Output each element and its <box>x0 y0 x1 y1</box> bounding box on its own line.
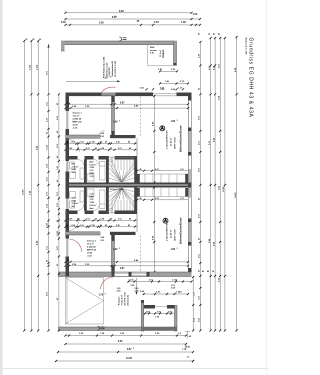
svg-text:2.375: 2.375 <box>36 64 38 70</box>
svg-text:BRH 0.90: BRH 0.90 <box>73 121 83 123</box>
svg-text:45: 45 <box>66 141 68 144</box>
dashed beam line B <box>140 236 142 272</box>
bottom dim row 3 <box>57 348 194 353</box>
svg-text:10.06: 10.06 <box>223 186 225 192</box>
svg-text:±0.00: ±0.00 <box>73 124 79 126</box>
svg-text:2.26/2.38: 2.26/2.38 <box>109 67 111 77</box>
svg-text:Zimmer 1: Zimmer 1 <box>73 111 83 114</box>
svg-text:5: 5 <box>119 248 120 250</box>
svg-text:45: 45 <box>128 141 130 144</box>
stair B treads <box>111 200 113 214</box>
page left edge shadow <box>0 0 3 375</box>
svg-text:BRH: BRH <box>90 173 95 175</box>
north window A <box>153 93 177 97</box>
svg-text:2.26/: 2.26/ <box>90 167 95 169</box>
east kitchen window B <box>189 188 191 198</box>
terrace door opening <box>115 273 129 276</box>
svg-text:2 St.: 2 St. <box>150 52 155 55</box>
svg-text:30: 30 <box>212 271 214 273</box>
north arrow B <box>163 218 168 223</box>
svg-text:5: 5 <box>133 348 134 350</box>
svg-text:1.01: 1.01 <box>180 169 184 171</box>
shed interior dims <box>144 313 175 315</box>
svg-text:30: 30 <box>199 33 201 35</box>
svg-text:21.05 m²: 21.05 m² <box>170 229 173 238</box>
WC divider B <box>84 188 87 211</box>
terrace <box>64 278 66 325</box>
svg-text:0.98: 0.98 <box>101 219 105 221</box>
svg-text:Maßstab 1:100: Maßstab 1:100 <box>245 38 248 56</box>
svg-text:2.26/2.38 BRH 0.90: 2.26/2.38 BRH 0.90 <box>167 130 169 149</box>
bedroom A west window <box>66 111 70 129</box>
svg-text:0.86: 0.86 <box>101 133 105 135</box>
dim row above shed <box>144 293 188 295</box>
svg-text:45: 45 <box>66 224 68 227</box>
svg-text:5.30: 5.30 <box>99 22 104 25</box>
bath dim row 2 B <box>66 226 138 228</box>
svg-text:1.96: 1.96 <box>113 249 118 251</box>
svg-text:Carport: Carport <box>162 49 165 58</box>
interior wall A vertical <box>112 96 115 137</box>
svg-text:UK Sturz 2.26: UK Sturz 2.26 <box>105 62 108 77</box>
svg-text:45: 45 <box>140 168 142 171</box>
svg-text:16 Stg 17.9/26: 16 Stg 17.9/26 <box>110 188 124 191</box>
svg-text:5: 5 <box>105 293 106 295</box>
svg-text:1.135: 1.135 <box>90 225 95 227</box>
entry door swing red <box>102 87 116 92</box>
shed walls <box>141 300 144 303</box>
flue symbol bottom <box>98 326 100 330</box>
svg-text:45: 45 <box>95 218 97 221</box>
svg-text:1.135: 1.135 <box>172 279 178 281</box>
svg-text:9.67: 9.67 <box>120 102 125 104</box>
svg-text:45: 45 <box>105 224 107 227</box>
bath dim row 1 <box>66 143 138 145</box>
west wall A <box>66 93 70 183</box>
svg-text:5: 5 <box>177 248 178 250</box>
svg-text:BRH: BRH <box>90 196 95 198</box>
svg-text:1.52: 1.52 <box>80 225 84 227</box>
east wall A/B thin lines <box>187 96 189 272</box>
svg-text:Wohnen/Kochen/Essen: Wohnen/Kochen/Essen <box>180 125 183 152</box>
svg-text:10.06: 10.06 <box>23 189 25 195</box>
svg-text:2.01: 2.01 <box>101 136 105 138</box>
kitchen counter A along party wall <box>137 173 188 175</box>
bottom dim row 4 <box>55 358 194 362</box>
svg-text:5: 5 <box>177 120 178 122</box>
carport niche partition <box>147 45 149 66</box>
living A vertical dim <box>153 96 155 183</box>
svg-text:1.135: 1.135 <box>47 144 49 150</box>
svg-text:2.01: 2.01 <box>86 219 90 221</box>
top dim chain detail <box>61 20 201 26</box>
svg-text:2.26: 2.26 <box>116 142 120 144</box>
svg-text:2.01: 2.01 <box>86 148 90 150</box>
bedroom B west door opening <box>66 239 70 257</box>
terrace door swing red <box>101 277 114 289</box>
bath dim row 2 <box>66 149 138 151</box>
svg-text:30: 30 <box>39 39 41 41</box>
svg-text:0.98: 0.98 <box>101 148 105 150</box>
bath fixtures A <box>100 162 106 181</box>
svg-text:5.20 m²: 5.20 m² <box>90 163 97 166</box>
svg-text:7.5/12.0 m²: 7.5/12.0 m² <box>121 295 124 306</box>
room A dim rows <box>66 103 189 105</box>
kitchen dim row A <box>137 170 188 172</box>
svg-text:45: 45 <box>110 147 112 150</box>
east window A <box>189 131 191 152</box>
west window A <box>66 161 70 172</box>
svg-text:21.05 m²: 21.05 m² <box>170 137 173 146</box>
west wall B <box>66 188 70 277</box>
svg-text:45: 45 <box>110 218 112 221</box>
stair A walls <box>106 156 109 183</box>
svg-text:1.135: 1.135 <box>90 142 95 144</box>
WC door arc B <box>78 204 84 211</box>
svg-text:2.04 m²: 2.04 m² <box>72 165 79 168</box>
north wall <box>66 93 192 97</box>
svg-text:2.26/2.38: 2.26/2.38 <box>87 246 96 248</box>
svg-text:Terrasse: Terrasse <box>119 296 121 306</box>
svg-text:5.20 m²: 5.20 m² <box>90 204 97 207</box>
svg-text:45: 45 <box>129 147 131 150</box>
hall door arc B <box>67 218 80 231</box>
WC divider A <box>84 160 87 183</box>
svg-text:OK FFB -0.03: OK FFB -0.03 <box>125 292 127 306</box>
svg-text:2.01: 2.01 <box>118 219 122 221</box>
bottom edge bar <box>58 327 177 331</box>
svg-text:0.90: 0.90 <box>69 148 73 150</box>
svg-text:2.26/2.38: 2.26/2.38 <box>73 118 82 120</box>
living B vertical dim <box>153 188 155 273</box>
svg-text:9.67: 9.67 <box>120 268 125 270</box>
svg-text:86: 86 <box>100 142 102 144</box>
niche dims <box>160 70 177 72</box>
svg-text:UK Rohdecke 2.385: UK Rohdecke 2.385 <box>104 56 106 77</box>
svg-text:(Holzdeck): (Holzdeck) <box>128 295 130 306</box>
party wall <box>66 183 192 188</box>
svg-text:2.53: 2.53 <box>154 21 159 24</box>
hall door arc A <box>67 139 80 152</box>
east window B <box>189 222 191 242</box>
svg-text:BRH 0.90: BRH 0.90 <box>87 249 97 251</box>
stair A treads <box>111 156 113 170</box>
south wall <box>58 272 192 277</box>
svg-text:86: 86 <box>100 225 102 227</box>
svg-text:OKFF ±0.00: OKFF ±0.00 <box>175 229 177 241</box>
WC fixtures A <box>70 162 75 169</box>
svg-text:1.76: 1.76 <box>99 294 104 296</box>
carport east wall <box>174 41 177 66</box>
svg-text:30: 30 <box>25 39 27 41</box>
svg-text:1.88: 1.88 <box>171 121 176 123</box>
svg-text:45: 45 <box>207 270 209 273</box>
svg-text:45: 45 <box>129 218 131 221</box>
dashed beam line A <box>140 97 142 137</box>
interior wall B vertical <box>112 235 115 272</box>
svg-text:1.88: 1.88 <box>171 249 176 251</box>
door arc bedroom A <box>99 131 105 137</box>
page right edge shadow <box>266 0 268 375</box>
carport north wall <box>61 41 177 45</box>
bath fixtures B <box>100 190 106 209</box>
svg-text:11.5 m²: 11.5 m² <box>73 114 80 117</box>
bedroom B dim rows <box>66 261 189 263</box>
window dim labels above <box>145 88 147 90</box>
svg-text:2.26/: 2.26/ <box>90 202 95 204</box>
svg-text:1.135: 1.135 <box>129 279 135 281</box>
east wall dark segments <box>188 93 192 101</box>
svg-text:45: 45 <box>140 197 142 200</box>
svg-text:30: 30 <box>219 33 221 35</box>
svg-text:30: 30 <box>209 33 211 35</box>
bedroom B door arc red <box>69 239 82 252</box>
svg-text:30: 30 <box>213 33 215 35</box>
svg-text:4.19: 4.19 <box>103 76 108 79</box>
svg-text:11.5 m²: 11.5 m² <box>87 242 94 245</box>
svg-text:Sektionaltor 43: Sektionaltor 43 <box>111 60 114 76</box>
top dim chain 8.675 + 1.00 <box>64 13 201 20</box>
svg-text:9.67: 9.67 <box>127 349 132 351</box>
svg-text:1.96: 1.96 <box>113 121 118 123</box>
svg-text:1.26/: 1.26/ <box>72 169 77 171</box>
south wall dark jambs <box>66 272 70 277</box>
bottom dim row 2 <box>64 341 190 349</box>
kitchen counter B along party wall <box>137 196 188 198</box>
top dim chain total 8.83 <box>64 10 192 14</box>
svg-text:1.345: 1.345 <box>176 291 182 294</box>
wall row2 A (bath/stair top) <box>66 156 78 160</box>
svg-text:2.04 m²: 2.04 m² <box>72 202 79 205</box>
svg-text:1.135: 1.135 <box>47 222 49 228</box>
dim 4.19 with arrow <box>66 80 119 82</box>
wall row1 B <box>66 232 101 235</box>
south window <box>132 273 147 276</box>
west window B <box>66 199 70 210</box>
entry door threshold <box>102 93 116 97</box>
svg-text:OKFF ±0.00: OKFF ±0.00 <box>175 137 177 149</box>
page bottom edge shadow <box>0 368 268 370</box>
svg-text:2.01: 2.01 <box>118 148 122 150</box>
WC fixtures B <box>70 201 75 208</box>
shed top wall <box>144 305 155 309</box>
carport right dims <box>160 83 188 85</box>
hall/kitchen partition line B <box>136 197 138 232</box>
north arrow A <box>160 126 165 131</box>
svg-text:1.01: 1.01 <box>180 198 184 200</box>
svg-text:2.26: 2.26 <box>116 225 120 227</box>
left dim chains <box>23 40 60 332</box>
hall/kitchen partition line A <box>136 138 138 174</box>
kitchen dim row B <box>137 199 188 201</box>
bath dim row 1 B <box>66 219 138 221</box>
svg-text:Zimmer 1: Zimmer 1 <box>87 239 97 242</box>
svg-text:0.30: 0.30 <box>61 21 66 24</box>
svg-text:10.06: 10.06 <box>126 358 132 360</box>
svg-text:1.52: 1.52 <box>80 142 84 144</box>
svg-text:2.01: 2.01 <box>101 240 105 242</box>
right dim chains <box>199 36 237 332</box>
wall row2 B <box>66 211 78 215</box>
svg-text:30: 30 <box>32 39 34 41</box>
carport west stub <box>61 41 65 51</box>
east wall dark segs B <box>188 183 192 188</box>
bottom dim row 1 <box>64 333 187 336</box>
WC door arc A <box>78 160 84 167</box>
dim row south <box>129 281 192 283</box>
svg-text:0.86: 0.86 <box>101 237 105 239</box>
svg-text:WC: WC <box>72 163 76 165</box>
svg-text:1.26/: 1.26/ <box>72 200 77 202</box>
svg-text:1.135: 1.135 <box>71 225 76 227</box>
svg-text:45: 45 <box>128 224 130 227</box>
svg-text:Wohnen/Kochen/Essen: Wohnen/Kochen/Essen <box>180 217 183 244</box>
svg-text:B 2.375 H 2.125: B 2.375 H 2.125 <box>115 60 117 76</box>
svg-text:1.00: 1.00 <box>193 13 198 16</box>
svg-text:45: 45 <box>77 218 79 221</box>
svg-text:14.26: 14.26 <box>234 192 237 198</box>
svg-text:Müll-: Müll- <box>150 47 155 49</box>
svg-text:WC: WC <box>72 206 76 208</box>
svg-text:8.35: 8.35 <box>118 341 123 343</box>
svg-text:5: 5 <box>119 120 120 122</box>
svg-text:2.26/2.38 BRH 0.90: 2.26/2.38 BRH 0.90 <box>167 222 169 241</box>
svg-text:tonnen: tonnen <box>150 49 158 52</box>
wall row1 A <box>66 135 101 138</box>
svg-text:1.38: 1.38 <box>181 21 186 24</box>
east kitchen window A <box>189 169 191 183</box>
svg-text:Grundriss EG DHH 43 & 43A: Grundriss EG DHH 43 & 43A <box>248 38 254 118</box>
svg-text:45: 45 <box>202 270 204 273</box>
stair B walls <box>106 188 109 215</box>
svg-text:45: 45 <box>95 147 97 150</box>
bottom right small dims <box>185 332 190 339</box>
svg-text:2.375: 2.375 <box>30 64 32 70</box>
svg-text:1.135: 1.135 <box>57 230 59 236</box>
svg-text:8.83: 8.83 <box>119 10 124 13</box>
svg-text:5: 5 <box>115 16 116 18</box>
svg-text:5: 5 <box>110 77 111 79</box>
svg-text:0.90: 0.90 <box>69 219 73 221</box>
svg-text:17.9 m²: 17.9 m² <box>159 50 162 57</box>
flue symbol top <box>120 37 122 41</box>
svg-text:45: 45 <box>105 141 107 144</box>
svg-text:±0.00: ±0.00 <box>87 252 93 254</box>
